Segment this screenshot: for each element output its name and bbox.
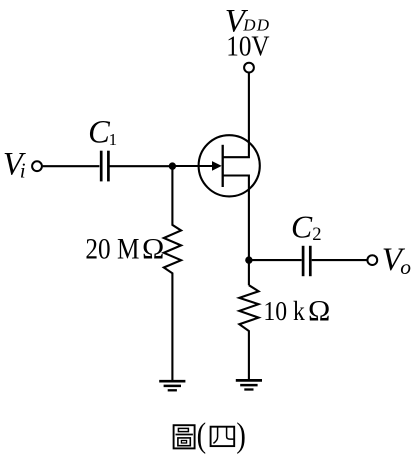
node output junction dot <box>245 256 252 263</box>
transistor Q1 gate arrow <box>212 161 222 171</box>
caption glyph Si (CJK 四) drawn as strokes <box>211 427 235 446</box>
svg-text:Ω: Ω <box>142 233 164 266</box>
resistor R2 10 kohm <box>239 285 258 380</box>
transistor Q1 drain lead <box>223 73 249 157</box>
svg-text:C: C <box>291 209 313 244</box>
capacitor C2 <box>303 246 310 276</box>
svg-text:10V: 10V <box>226 32 269 63</box>
caption glyph Tu (CJK 圖) drawn as strokes <box>174 425 195 448</box>
svg-text:(: ( <box>197 416 207 455</box>
svg-text:20 M: 20 M <box>85 233 139 266</box>
wire gate lead <box>172 165 214 167</box>
svg-text:10 k: 10 k <box>263 296 304 327</box>
svg-text:): ) <box>236 416 246 455</box>
svg-text:Ω: Ω <box>308 295 330 328</box>
wire output node to C2 <box>249 259 302 261</box>
transistor Q1 channel bar <box>222 145 224 187</box>
wire input Vi to C1 <box>43 165 100 167</box>
resistor R1 20 Mohm <box>164 166 181 381</box>
svg-text:1: 1 <box>109 130 118 149</box>
node VDD terminal <box>244 63 254 73</box>
wire C2 to Vo <box>312 259 367 261</box>
transistor Q1 source lead <box>223 176 249 286</box>
node Vi input terminal <box>32 161 42 171</box>
ground left <box>159 381 185 390</box>
svg-text:o: o <box>400 255 411 279</box>
svg-text:2: 2 <box>312 224 321 245</box>
wire C1 to gate node <box>109 165 172 167</box>
ground right <box>236 380 262 389</box>
node Vo output terminal <box>367 255 377 265</box>
node gate junction dot <box>169 162 176 169</box>
svg-text:i: i <box>20 158 26 182</box>
transistor Q1 circle <box>199 135 260 196</box>
capacitor C1 <box>101 151 108 182</box>
svg-text:C: C <box>88 114 110 150</box>
